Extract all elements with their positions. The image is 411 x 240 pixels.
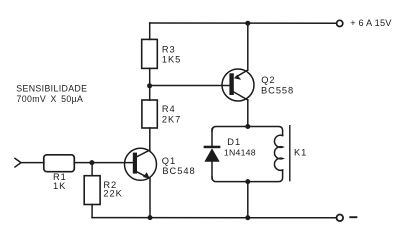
svg-text:SENSIBILIDADE: SENSIBILIDADE: [16, 84, 87, 94]
transistor Q1: [125, 148, 157, 180]
node: relay box top: [245, 124, 250, 129]
wire: top supply rail: [150, 22, 337, 24]
node: R3/R4/Q2-base junction: [147, 83, 152, 88]
svg-text:R4: R4: [162, 104, 176, 114]
relay coil K1: [274, 135, 282, 170]
svg-text:Q1: Q1: [162, 156, 176, 166]
svg-text:Q2: Q2: [261, 75, 275, 85]
svg-text:BC548: BC548: [162, 166, 195, 176]
wire: relay box top side: [212, 127, 283, 136]
wire: relay box bottom side: [212, 170, 283, 182]
svg-text:2K7: 2K7: [162, 114, 181, 124]
svg-text:1K5: 1K5: [162, 54, 181, 64]
wire: R1 to base node: [74, 162, 133, 164]
resistor R2: [84, 176, 100, 205]
terminal: positive supply: [337, 20, 343, 26]
svg-text:R3: R3: [162, 44, 176, 54]
wire: node down to R2: [91, 163, 93, 176]
wire: input to R1: [21, 162, 44, 164]
wire: R3 bottom to node: [149, 68, 151, 100]
wire: top rail to R3: [149, 23, 151, 39]
wire: top rail to Q2 emitter: [247, 23, 249, 70]
svg-text:700mV X 50µA: 700mV X 50µA: [17, 94, 84, 104]
wire: Q1 emitter to ground rail: [149, 178, 151, 217]
node: Q1 emitter on rail: [148, 215, 153, 220]
resistor R4: [142, 100, 157, 128]
svg-text:K1: K1: [294, 147, 307, 157]
svg-text:BC558: BC558: [261, 85, 294, 95]
node: relay return on rail: [245, 215, 250, 220]
resistor R3: [142, 39, 158, 68]
wire: R4 to Q1 collector: [149, 128, 151, 151]
resistor R1: [44, 155, 75, 172]
label: minus: [350, 216, 356, 218]
node: R1/R2/Q1-base junction: [89, 160, 94, 165]
svg-text:1K: 1K: [53, 181, 66, 191]
input terminal arrow: [15, 158, 21, 167]
node: top rail / Q2 emitter: [245, 21, 250, 26]
svg-text:1N4148: 1N4148: [224, 147, 256, 157]
svg-text:+ 6 A 15V: + 6 A 15V: [350, 18, 392, 28]
relay actuator bar: [289, 126, 291, 181]
wire: Q2 collector to relay box: [247, 100, 249, 127]
wire: bottom return rail: [92, 217, 336, 219]
wire: R2 to ground rail: [91, 205, 93, 218]
node: relay box bottom: [245, 179, 250, 184]
transistor Q2: [222, 69, 254, 101]
svg-text:22K: 22K: [103, 189, 122, 199]
svg-text:D1: D1: [227, 137, 241, 147]
wire: relay box bottom to ground rail: [247, 182, 249, 218]
terminal: negative supply: [337, 215, 344, 222]
diode D1: [204, 129, 221, 179]
wire: node to Q2 base: [150, 85, 230, 87]
